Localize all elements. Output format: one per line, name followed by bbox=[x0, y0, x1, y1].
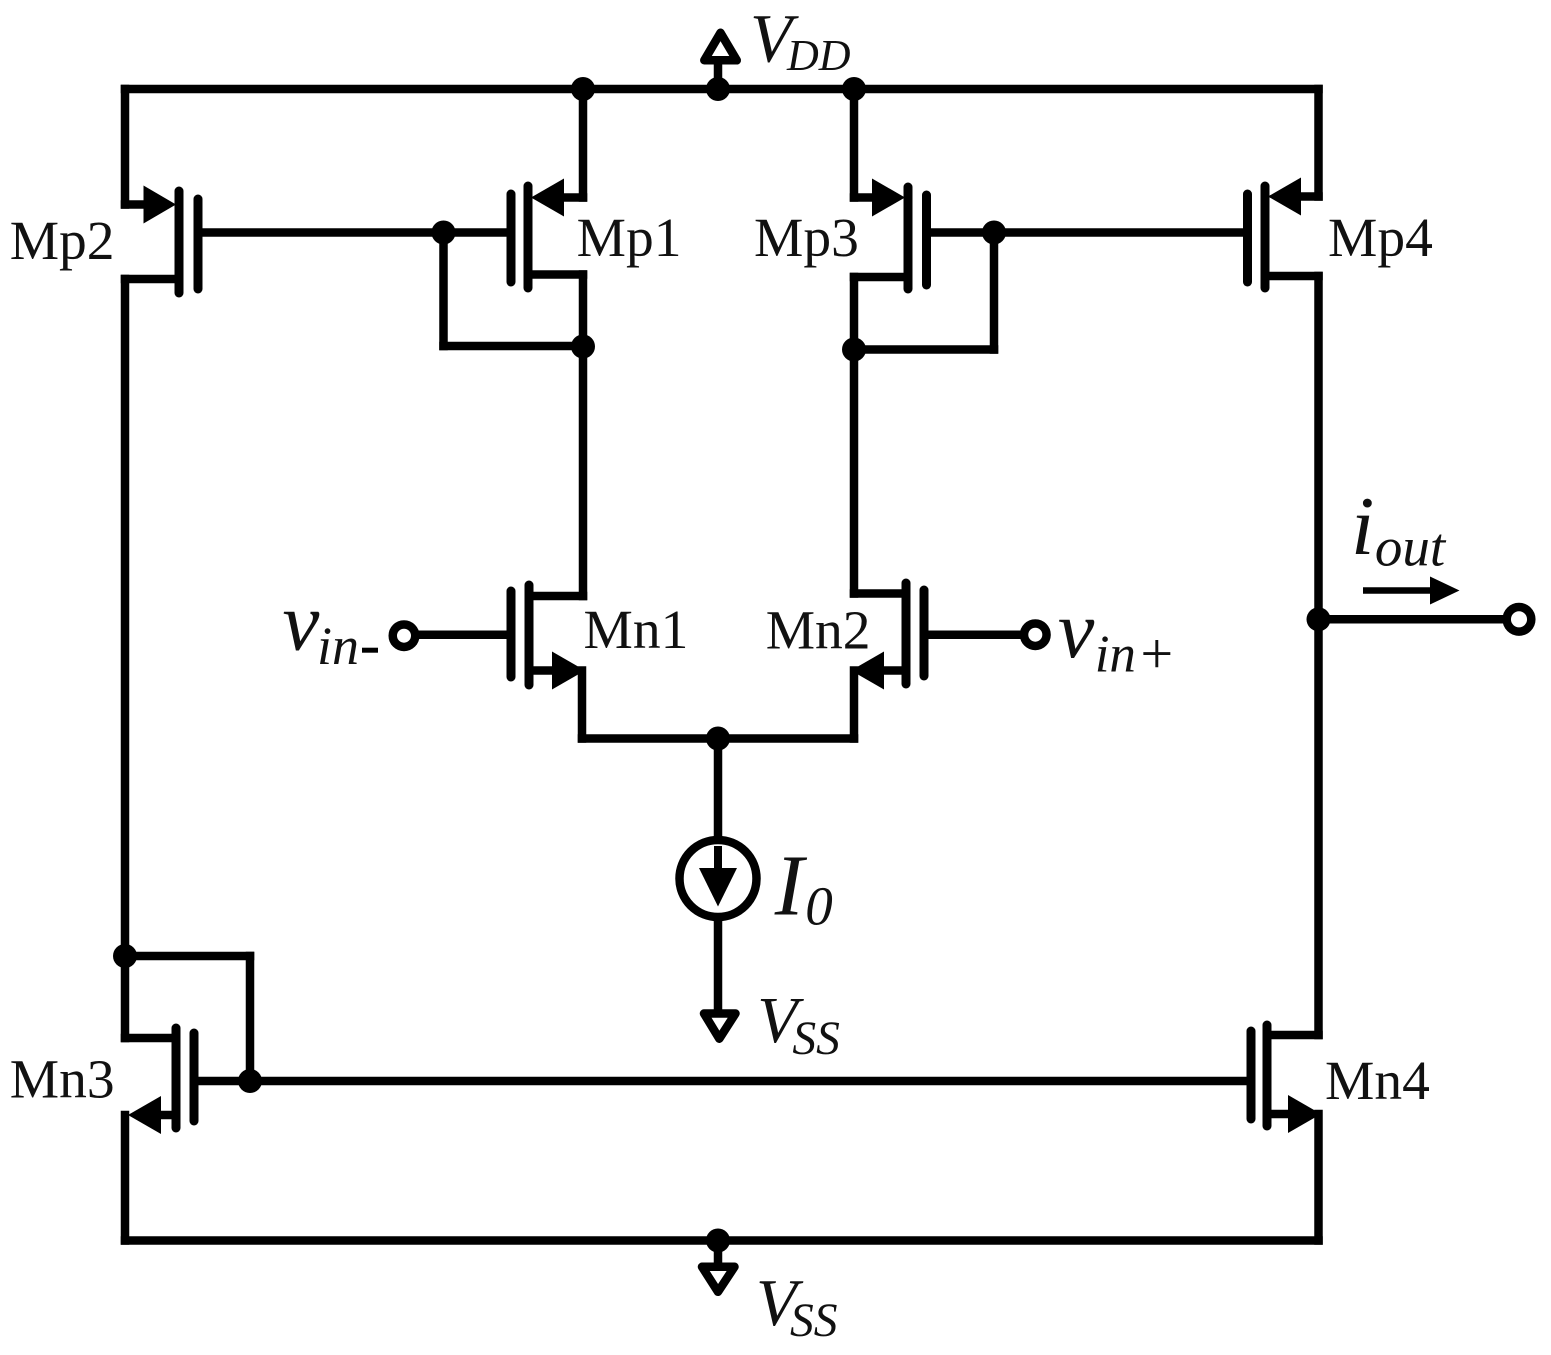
wire Mn4 source drop to VSS rail bbox=[1314, 1114, 1323, 1241]
transistor Mn4 gate bar bbox=[1247, 1031, 1256, 1119]
wire Mn3 gate to Mn4 gate bbox=[194, 1077, 1251, 1086]
svg-text:Mn4: Mn4 bbox=[1325, 1051, 1430, 1112]
transistor Mp4 source arrow bbox=[1268, 178, 1301, 216]
transistor Mn2 source arrow bbox=[851, 652, 884, 690]
svg-text:Mp1: Mp1 bbox=[577, 208, 682, 269]
power symbol VSS bottom triangle bbox=[702, 1267, 735, 1292]
transistor Mn2 drain stub bbox=[854, 589, 906, 598]
transistor Mn1 drain stub bbox=[529, 592, 583, 601]
wire top VDD rail bbox=[125, 85, 1319, 94]
iout current arrow shaft bbox=[1363, 587, 1436, 594]
power symbol VSS upper triangle bbox=[704, 1014, 736, 1039]
svg-text:SS: SS bbox=[790, 1295, 838, 1347]
terminal vin- input circle bbox=[393, 624, 416, 647]
wire Mn3 diode-connect vertical bbox=[246, 956, 255, 1081]
wire left diode-connect horizontal bbox=[444, 342, 584, 351]
wire VDD stem bbox=[714, 63, 723, 89]
wire Mp1 source drop bbox=[579, 89, 588, 198]
wire left diode-connect vertical bbox=[439, 233, 448, 347]
wire Mp2 gate to Mp1 gate bbox=[198, 228, 511, 237]
wire left drop from VDD rail to Mp2 source bbox=[121, 89, 130, 205]
wire current source to VSS bbox=[714, 920, 723, 1011]
svg-text:Mn1: Mn1 bbox=[584, 600, 689, 661]
transistor Mn1 source stub bbox=[529, 666, 552, 675]
svg-text:in: in bbox=[1095, 625, 1136, 683]
transistor Mp4 source stub bbox=[1302, 192, 1319, 201]
node Mp3 source rail dot bbox=[842, 77, 866, 101]
transistor Mn4 source arrow bbox=[1288, 1095, 1321, 1133]
transistor Mp4 channel bar bbox=[1261, 186, 1270, 288]
transistor Mn2 gate bar bbox=[920, 590, 929, 676]
wire Mp3 gate to Mp4 gate bbox=[927, 228, 1248, 237]
wire output lead bbox=[1319, 615, 1505, 624]
transistor Mn4 drain stub bbox=[1267, 1031, 1319, 1040]
transistor Mp1 channel bar bbox=[524, 186, 533, 288]
svg-text:+: + bbox=[1137, 621, 1176, 686]
current source I0 arrow head bbox=[699, 868, 737, 907]
wire bottom VSS rail bbox=[125, 1236, 1319, 1245]
svg-text:v: v bbox=[1058, 584, 1095, 675]
transistor Mp1 source arrow bbox=[531, 179, 564, 217]
wire Mn2 source drop bbox=[850, 671, 859, 739]
transistor Mn4 source stub bbox=[1267, 1110, 1286, 1119]
svg-text:0: 0 bbox=[805, 876, 833, 937]
svg-text:Mp3: Mp3 bbox=[754, 208, 859, 269]
transistor Mp3 gate bar bbox=[922, 195, 931, 285]
transistor Mp1 gate bar bbox=[507, 194, 516, 282]
transistor Mp3 drain stub bbox=[854, 273, 908, 282]
wire Mp3 drain to Mn2 drain bbox=[850, 277, 859, 594]
iout current arrow head bbox=[1430, 577, 1460, 605]
wire left column Mp2 drain to Mn3 drain bbox=[121, 279, 130, 1038]
terminal vin+ input circle bbox=[1024, 623, 1047, 646]
wire Mp3 source drop bbox=[850, 89, 859, 198]
power symbol VDD triangle bbox=[704, 33, 737, 61]
transistor Mp3 channel bar bbox=[904, 187, 913, 289]
transistor Mp2 drain stub bbox=[125, 275, 179, 284]
wire Mn1 source drop bbox=[578, 671, 587, 739]
svg-text:SS: SS bbox=[792, 1013, 840, 1065]
transistor Mp4 gate bar bbox=[1243, 194, 1252, 282]
wire Mn2 source to tail bbox=[718, 734, 854, 743]
transistor Mp1 source stub bbox=[566, 193, 583, 202]
node bottom VSS junction dot bbox=[706, 1229, 730, 1253]
transistor Mp4 drain stub bbox=[1265, 272, 1319, 281]
transistor Mn1 channel bar bbox=[525, 585, 534, 685]
transistor Mn3 source stub bbox=[162, 1111, 176, 1120]
node VDD junction dot bbox=[706, 77, 730, 101]
node right gate junction dot bbox=[982, 221, 1006, 245]
terminal iout output circle bbox=[1507, 607, 1532, 632]
transistor Mn3 gate bar bbox=[190, 1033, 199, 1121]
transistor Mn3 drain stub bbox=[125, 1034, 176, 1043]
svg-text:Mp2: Mp2 bbox=[10, 211, 115, 272]
wire Mn3 source drop to VSS rail bbox=[121, 1115, 130, 1241]
transistor Mp2 source stub bbox=[125, 200, 160, 209]
transistor Mn2 channel bar bbox=[902, 583, 911, 684]
transistor Mp2 channel bar bbox=[175, 191, 184, 293]
current source I0 arrow shaft bbox=[714, 846, 722, 868]
svg-text:out: out bbox=[1375, 517, 1447, 578]
current source I0 circle bbox=[680, 840, 757, 917]
wire right drop from VDD rail to Mp4 source bbox=[1314, 89, 1323, 197]
wire Mn1 gate lead bbox=[418, 630, 511, 639]
transistor Mn4 channel bar bbox=[1263, 1025, 1272, 1126]
transistor Mn1 source arrow bbox=[552, 652, 585, 690]
svg-text:Mn3: Mn3 bbox=[10, 1050, 115, 1111]
node Mn3 diode junction dot bbox=[113, 944, 137, 968]
wire tail to current source bbox=[714, 739, 723, 838]
wire Mn3 diode-connect horizontal bbox=[125, 952, 250, 961]
node iout junction dot bbox=[1307, 607, 1331, 631]
transistor Mp3 source arrow bbox=[872, 179, 905, 217]
svg-text:Mn2: Mn2 bbox=[766, 601, 871, 662]
transistor Mn2 source stub bbox=[884, 666, 906, 675]
wire Mn1 source to tail bbox=[582, 734, 718, 743]
node bottom gate junction dot bbox=[238, 1069, 262, 1093]
wire Mp4 drain to Mn4 drain (output column) bbox=[1314, 276, 1323, 1035]
wire Mp1 drain to Mn1 drain bbox=[579, 275, 588, 597]
node Mp3 drain junction dot bbox=[842, 338, 866, 362]
svg-text:v: v bbox=[283, 576, 320, 668]
label vin- minus sign bbox=[362, 648, 378, 653]
svg-text:I: I bbox=[774, 836, 808, 933]
svg-text:Mp4: Mp4 bbox=[1328, 208, 1433, 269]
node left gate junction dot bbox=[432, 221, 456, 245]
svg-text:i: i bbox=[1351, 480, 1374, 573]
transistor Mn3 channel bar bbox=[172, 1028, 181, 1128]
transistor Mp2 source arrow bbox=[144, 186, 177, 224]
wire Mn2 gate lead bbox=[924, 630, 1020, 639]
node Mp1 source rail dot bbox=[571, 77, 595, 101]
svg-text:in: in bbox=[317, 616, 359, 676]
wire bottom VSS stem bbox=[714, 1241, 723, 1267]
wire right diode-connect vertical bbox=[990, 233, 999, 350]
wire right diode-connect horizontal bbox=[854, 345, 994, 354]
transistor Mp3 source stub bbox=[854, 193, 871, 202]
svg-text:DD: DD bbox=[786, 31, 851, 80]
transistor Mp2 gate bar bbox=[194, 199, 203, 289]
transistor Mp1 drain stub bbox=[528, 270, 583, 279]
node Mp1 drain junction dot bbox=[571, 335, 595, 359]
node tail junction dot bbox=[706, 727, 730, 751]
transistor Mn1 gate bar bbox=[507, 591, 516, 677]
transistor Mn3 source arrow bbox=[128, 1096, 161, 1134]
